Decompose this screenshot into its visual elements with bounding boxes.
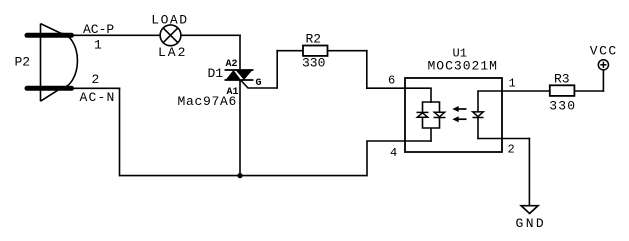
light arrow upper — [452, 106, 466, 112]
svg-text:Mac97A6: Mac97A6 — [178, 94, 238, 109]
ground symbol — [521, 206, 538, 214]
connector P2 outline — [41, 24, 78, 102]
wire pin6 internal — [405, 87, 432, 89]
svg-text:A2: A2 — [226, 59, 238, 70]
wire bottom rail — [120, 175, 368, 177]
P2 pin 2 bar — [27, 86, 72, 91]
svg-text:1: 1 — [94, 38, 102, 53]
wire pin4 internal — [405, 140, 432, 142]
wire AC-N bar to corner — [73, 87, 120, 89]
photo-triac diode up — [417, 112, 429, 117]
svg-text:R2: R2 — [306, 32, 322, 47]
LED cathode bar — [473, 117, 484, 119]
svg-text:6: 6 — [388, 74, 395, 88]
svg-text:2: 2 — [508, 143, 515, 157]
wire stub to photo-triac top — [430, 88, 432, 103]
wire corner down to triac A2 — [239, 35, 241, 71]
LED branch upper — [477, 91, 479, 112]
wire gate slant — [241, 81, 277, 89]
wire into pin 6 — [366, 87, 405, 89]
LED D triangle — [473, 112, 484, 117]
wire pin1 internal — [477, 90, 502, 92]
power symbol VCC — [598, 60, 608, 70]
wire stub photo-triac bottom — [430, 128, 432, 142]
IC U1 box — [405, 78, 502, 152]
wire AC-P bar to lamp — [73, 34, 161, 36]
svg-text:1: 1 — [509, 77, 516, 91]
wire down to pin6 level — [366, 50, 368, 89]
wire pin2 to GND corner — [502, 138, 530, 140]
svg-text:LOAD: LOAD — [151, 13, 188, 28]
svg-text:MOC3021M: MOC3021M — [428, 59, 498, 74]
svg-text:R3: R3 — [554, 72, 570, 87]
resistor R2 — [303, 46, 328, 56]
junction dot — [237, 173, 242, 178]
svg-text:330: 330 — [549, 99, 576, 114]
wire R3 to VCC drop — [574, 90, 604, 92]
triac D1 — [225, 70, 254, 80]
lamp LA2 — [160, 25, 181, 46]
wire AC-N down — [119, 88, 121, 177]
wire into pin 4 — [366, 140, 405, 142]
wire triac A1 down to rail — [239, 80, 241, 176]
svg-text:D1: D1 — [208, 66, 224, 81]
wire gate riser up — [276, 50, 278, 89]
LED branch lower — [477, 118, 479, 140]
svg-text:GND: GND — [516, 216, 547, 231]
photo-triac cell frame — [423, 102, 440, 128]
resistor R3 — [550, 85, 575, 96]
P2 pin 1 bar — [27, 33, 72, 38]
svg-text:4: 4 — [390, 146, 397, 160]
light arrow lower — [452, 116, 466, 122]
wire pin1 to R3 — [502, 90, 550, 92]
photo-triac diode down — [434, 112, 446, 117]
svg-text:2: 2 — [92, 72, 100, 87]
wire R2 right — [328, 50, 368, 52]
svg-text:VCC: VCC — [590, 44, 618, 59]
svg-text:P2: P2 — [15, 55, 31, 70]
wire to R2 left — [276, 50, 303, 52]
wire VCC riser — [602, 69, 604, 91]
svg-text:AC-N: AC-N — [80, 90, 116, 105]
wire pin2 internal — [477, 138, 502, 140]
svg-text:330: 330 — [302, 56, 325, 71]
wire lamp to corner — [181, 34, 241, 36]
wire GND drop — [528, 138, 530, 206]
wire riser to pin 4 — [366, 141, 368, 176]
svg-text:LA2: LA2 — [158, 45, 187, 60]
